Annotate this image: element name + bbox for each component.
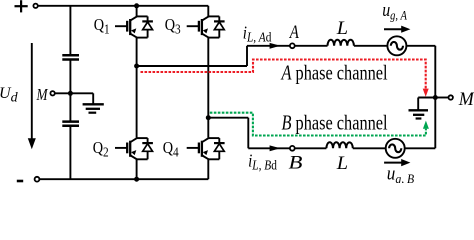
bottom rail wire <box>39 178 208 180</box>
label iL,Ad <box>243 22 272 45</box>
wire B line mid <box>353 147 386 149</box>
label node B <box>289 151 303 173</box>
wire A line left <box>247 45 328 47</box>
wire right vertical <box>434 46 436 149</box>
leg 2 wire middle <box>207 38 209 138</box>
inductor L phase B <box>326 142 352 148</box>
leg 1 wire bottom <box>136 159 138 179</box>
label Q2 <box>93 139 109 160</box>
arrow iL,Ad <box>270 43 281 49</box>
wire A line mid <box>354 45 388 47</box>
svg-text:M: M <box>458 89 474 111</box>
label Q1 <box>94 16 110 37</box>
label Q3 <box>165 16 181 37</box>
junction dot mid capacitor <box>68 91 73 96</box>
wire B line right <box>405 147 436 149</box>
capacitor C2 <box>62 122 79 126</box>
svg-text:L: L <box>336 154 348 174</box>
transistor Q1 <box>115 16 153 37</box>
node B circle <box>290 146 295 151</box>
wire A line right <box>406 45 435 47</box>
label node A <box>289 21 299 42</box>
label B phase channel <box>282 112 388 136</box>
svg-text:A: A <box>289 21 299 42</box>
A channel arrowhead <box>423 89 429 97</box>
leg 1 wire top <box>136 6 138 17</box>
label A phase channel <box>280 61 388 85</box>
svg-text:B: B <box>289 151 303 173</box>
top terminal circle <box>33 4 37 8</box>
top rail wire <box>38 5 209 7</box>
inductor L phase A <box>328 40 354 46</box>
capacitor branch wire middle <box>69 60 71 122</box>
ground right <box>409 98 436 119</box>
transistor Q2 <box>115 138 153 159</box>
plus terminal label <box>15 0 28 12</box>
capacitor branch wire upper <box>69 6 71 55</box>
svg-text:M: M <box>36 86 49 105</box>
wire A output horizontal <box>137 65 247 67</box>
wire B output horizontal <box>208 117 248 119</box>
minus terminal label <box>17 180 23 183</box>
capacitor C1 <box>62 55 79 59</box>
AC source ug,B <box>386 139 405 158</box>
wire M right <box>435 97 448 99</box>
wire B output step down <box>247 118 249 149</box>
junction dot bottom rail leg1 <box>134 177 139 182</box>
capacitor branch wire lower <box>69 126 71 179</box>
node A circle <box>290 43 295 48</box>
leg 1 wire middle <box>136 38 138 138</box>
ground left <box>83 93 104 112</box>
svg-text:A phase channel: A phase channel <box>280 61 388 85</box>
junction dot leg1 midpoint <box>134 64 139 69</box>
arrow ug,A <box>384 26 410 33</box>
wire A output step up <box>246 46 248 66</box>
arrow ug,B <box>384 159 410 166</box>
label ug,A <box>382 0 408 23</box>
M left terminal circle <box>50 91 54 95</box>
label L phase B <box>336 154 348 174</box>
leg 2 wire top <box>207 6 209 17</box>
B channel arrowhead <box>423 121 429 129</box>
junction dot M right <box>433 95 438 100</box>
AC source ug,A <box>387 36 406 55</box>
wire B line left <box>248 147 326 149</box>
label ug,B <box>387 163 415 186</box>
label L phase A <box>336 19 348 39</box>
label iL,Bd <box>248 150 277 173</box>
Ud voltage arrow <box>28 43 36 149</box>
label Ud <box>0 85 19 105</box>
M right terminal circle <box>449 95 453 99</box>
svg-text:L: L <box>336 19 348 39</box>
bottom terminal circle <box>35 177 40 182</box>
label M right <box>458 89 474 111</box>
transistor Q3 <box>187 16 225 37</box>
A phase channel dashed path <box>141 60 426 89</box>
B phase channel dashed path <box>210 113 426 136</box>
arrow iL,Bd <box>270 145 281 151</box>
node M left wire <box>55 92 93 94</box>
transistor Q4 <box>187 138 225 159</box>
label M left <box>36 86 49 105</box>
label Q4 <box>163 139 180 160</box>
junction dot leg2 midpoint <box>206 115 211 120</box>
leg 2 wire bottom <box>207 159 209 179</box>
junction dot top rail leg1 <box>134 3 139 8</box>
svg-text:B phase channel: B phase channel <box>282 112 388 136</box>
